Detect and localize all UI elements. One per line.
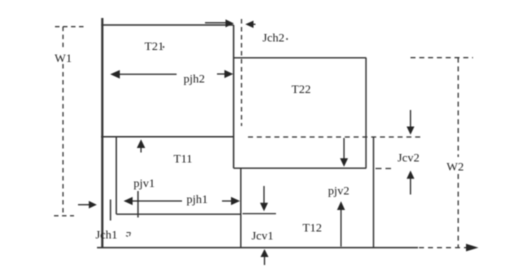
tile T12 left edge <box>240 168 242 247</box>
tile T21 top edge <box>101 24 233 26</box>
svg-text:Jcv1: Jcv1 <box>252 229 274 243</box>
dimension line W2 top cap <box>411 57 474 59</box>
svg-text:T12: T12 <box>303 221 322 235</box>
baseline solid segment <box>97 247 418 249</box>
tile T22 top edge <box>234 57 367 59</box>
stray dot after T21 <box>163 46 165 48</box>
Jcv1 level line inside T12 <box>243 213 277 215</box>
arrow pjh1 right (right-pointing) <box>222 200 232 202</box>
svg-text:W1: W1 <box>55 51 72 65</box>
tile T21 left edge <box>101 18 103 247</box>
dimension line W1 vertical <box>62 27 64 49</box>
svg-text:T21: T21 <box>145 39 164 53</box>
svg-text:pjv2: pjv2 <box>328 184 349 198</box>
arrow Jch2 (left-pointing) <box>249 23 256 25</box>
svg-text:pjv1: pjv1 <box>134 176 155 190</box>
arrow Jcv2 bottom (up-pointing) <box>410 177 412 195</box>
arrow under T11 top edge (up-pointing) <box>140 145 142 153</box>
arrow pjh2 right (right-pointing) <box>217 73 226 75</box>
svg-text:T22: T22 <box>292 82 311 96</box>
arrow Jcv1 top (down-pointing) <box>263 186 265 204</box>
Jch1 tick line <box>110 200 112 221</box>
dashed vertical joint line Jch2 <box>241 19 243 126</box>
tile T22 right edge <box>365 58 367 168</box>
dashed horizontal level line (T21 bottom extension) <box>248 136 424 138</box>
svg-text:pjh1: pjh1 <box>187 192 208 206</box>
dashed horizontal level line (T22 bottom extension) <box>376 168 392 170</box>
arrow pjh1 left (left-pointing) <box>125 200 182 202</box>
svg-text:Jch2: Jch2 <box>263 31 285 45</box>
stray return mark after Jch1 <box>126 233 131 237</box>
svg-text:T11: T11 <box>174 152 193 166</box>
arrow Jcv2 top (down-pointing) <box>410 110 412 128</box>
baseline dashed segment <box>419 247 466 249</box>
arrow Jch1 (right-pointing) <box>78 204 91 206</box>
arrow pjv2 (up-pointing) <box>340 210 342 247</box>
tile T21 bottom / T11 top edge <box>101 136 234 138</box>
tile T12 right edge <box>373 137 375 247</box>
arrow at end of baseline (right-pointing) <box>466 244 479 252</box>
arrow pjh2 left (left-pointing) <box>112 73 177 75</box>
tile T21 right edge / T22 left edge <box>233 25 235 168</box>
pjv1 tick line <box>137 191 139 218</box>
stray dot after Jch2 <box>286 38 288 40</box>
tile T11 left edge <box>115 137 117 214</box>
svg-text:Jch1: Jch1 <box>96 228 118 242</box>
svg-text:W2: W2 <box>447 160 464 174</box>
dimension line W1 bottom cap <box>54 215 74 217</box>
arrow on T21 top edge (right-pointing) <box>205 22 226 24</box>
dimension line W1 top cap <box>55 26 84 28</box>
svg-text:Jcv2: Jcv2 <box>398 151 420 165</box>
tile T22 bottom edge <box>234 167 367 169</box>
arrow Jcv1 bottom (up-pointing, below baseline) <box>264 254 266 265</box>
arrow inside T22 (down-pointing) <box>343 138 345 159</box>
dimension line W2 vertical <box>457 58 459 157</box>
svg-text:pjh2: pjh2 <box>184 72 205 86</box>
tile T11 bottom edge <box>116 213 241 215</box>
